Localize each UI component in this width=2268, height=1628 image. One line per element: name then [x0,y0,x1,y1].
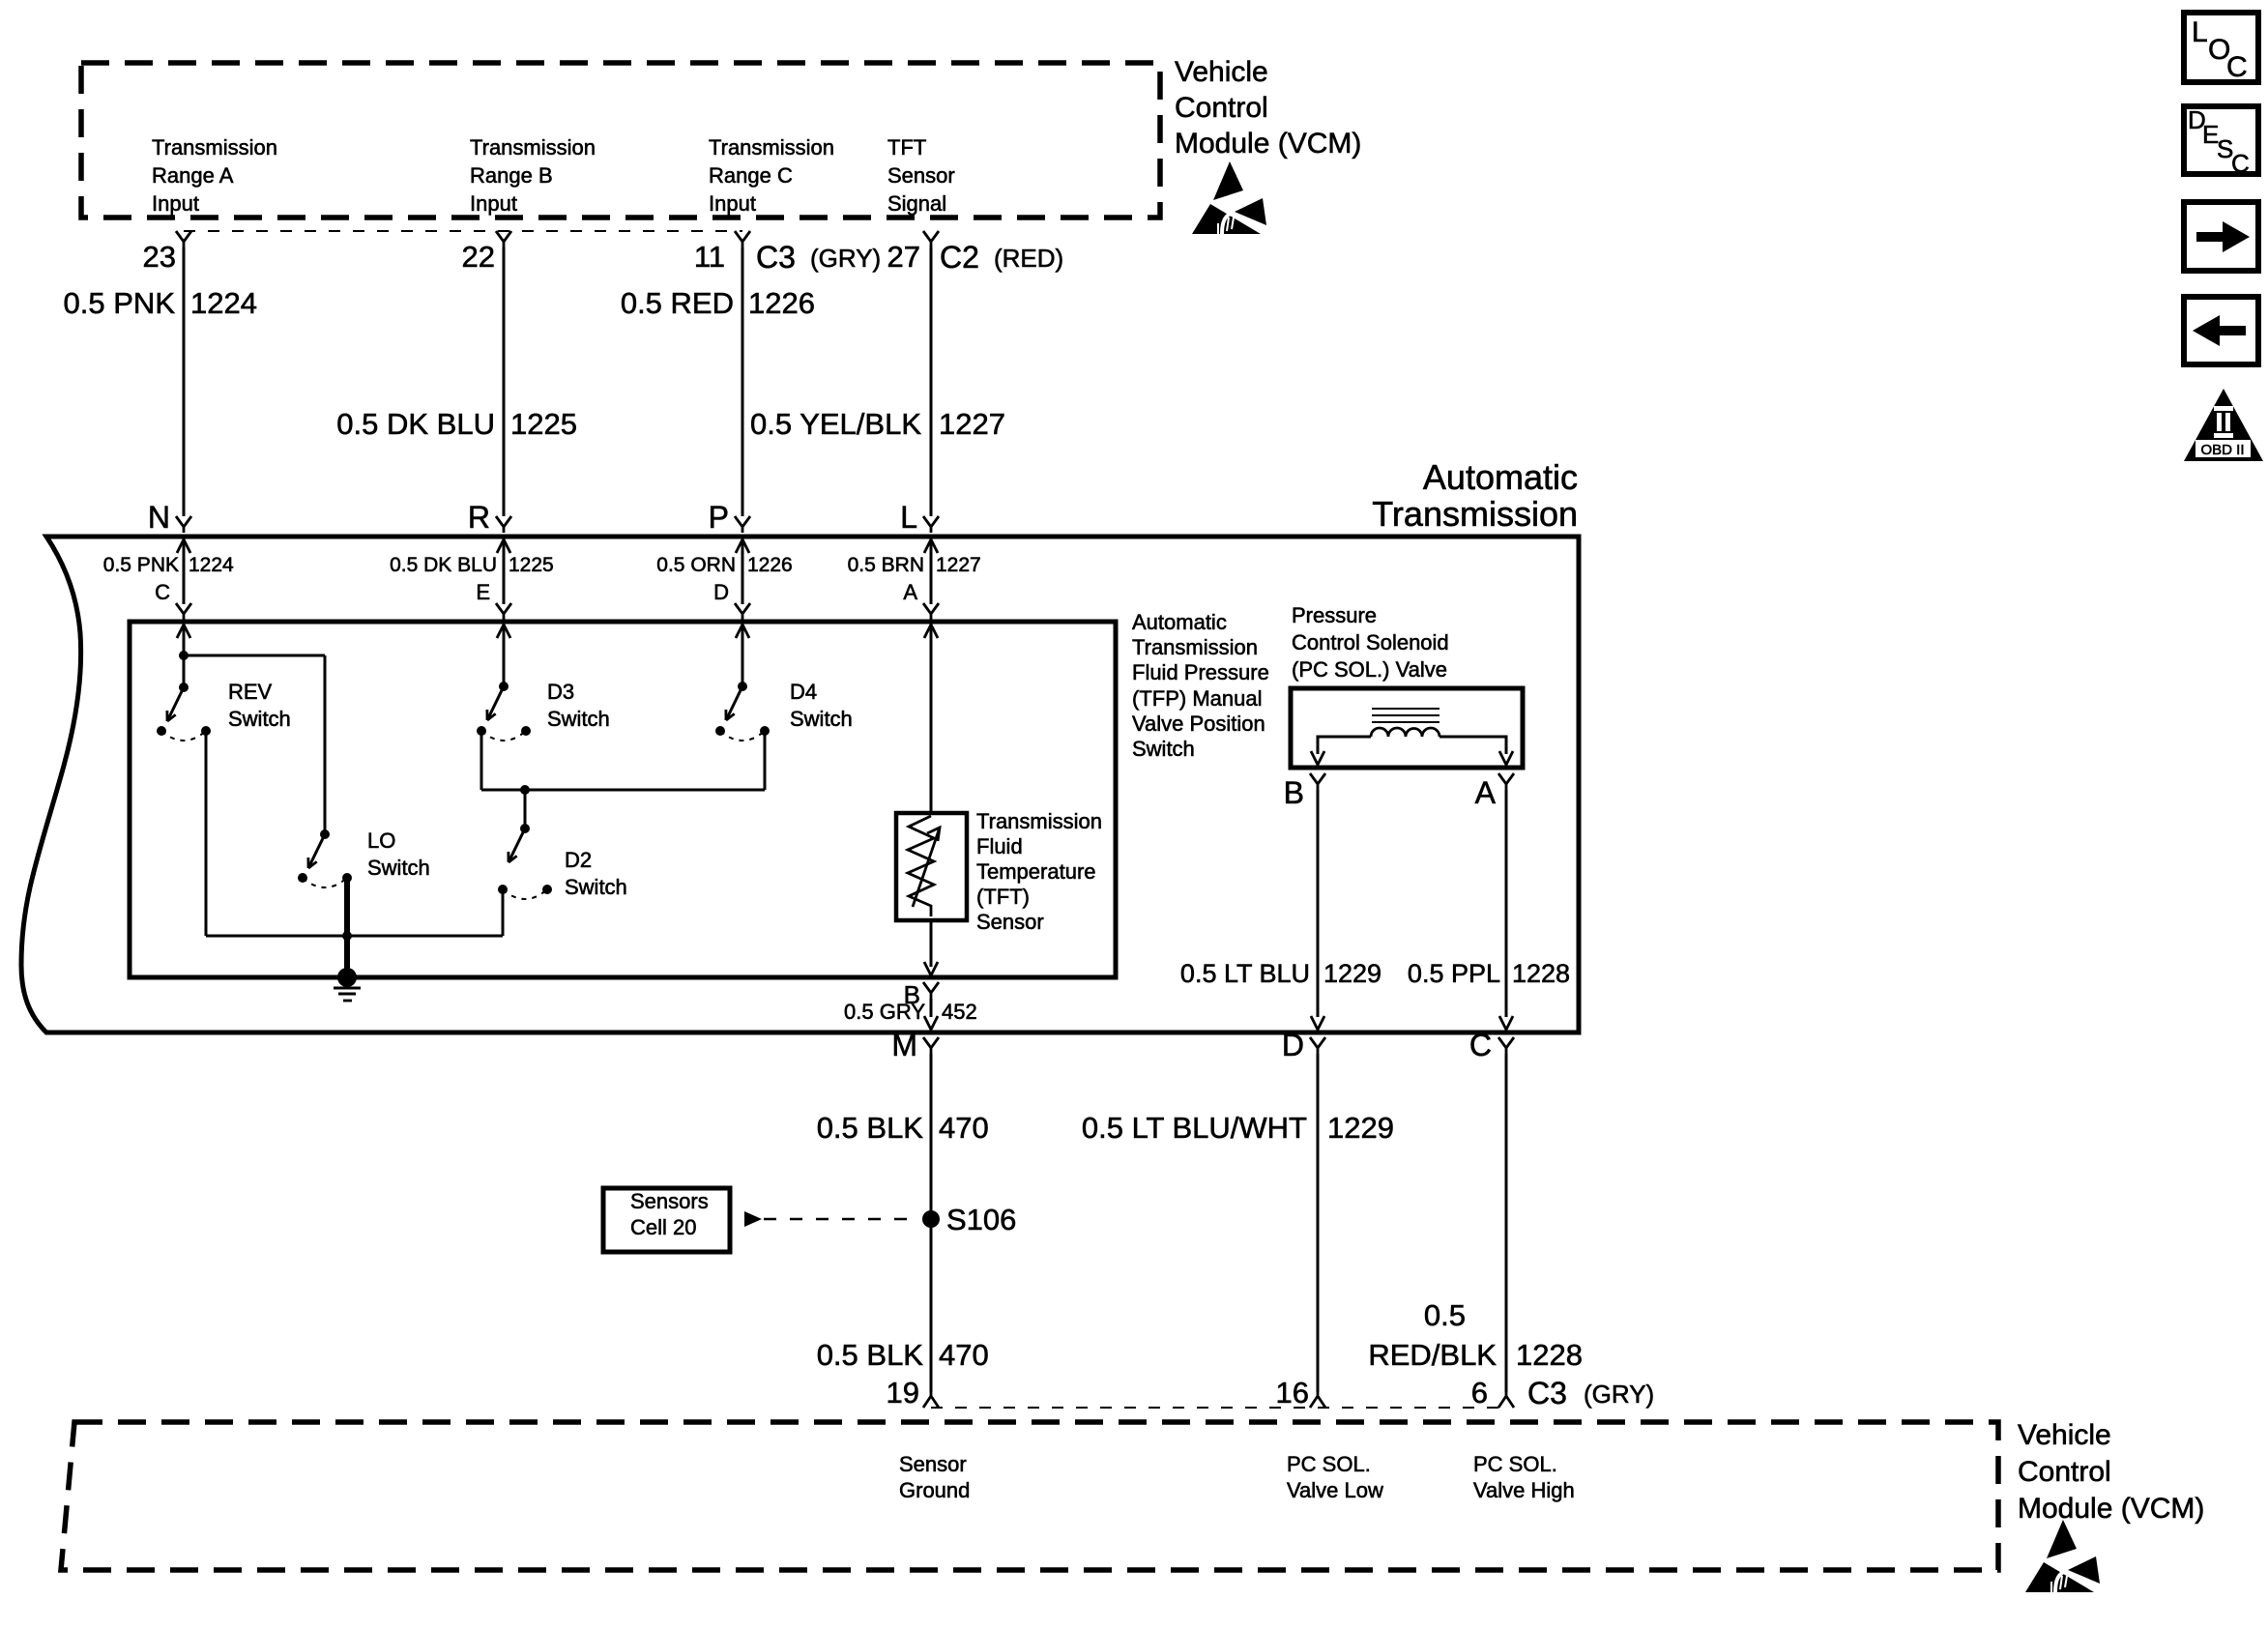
svg-text:Switch: Switch [1132,737,1195,761]
svg-text:OBD II: OBD II [2200,442,2244,458]
svg-text:0.5: 0.5 [1424,1298,1466,1332]
pin B of TFP switch [904,980,939,1009]
svg-text:0.5 LT BLU/WHT: 0.5 LT BLU/WHT [1082,1111,1307,1145]
svg-text:P: P [709,500,729,535]
solenoid pin A [1475,773,1514,810]
node junction D3/D4 to D2 [520,785,530,795]
svg-text:(GRY): (GRY) [810,244,881,273]
node D [1282,1028,1325,1062]
svg-text:Automatic: Automatic [1423,457,1578,497]
svg-text:Control: Control [1175,92,1268,124]
svg-text:1229: 1229 [1327,1111,1394,1145]
svg-text:1225: 1225 [509,554,554,576]
svg-text:0.5 ORN: 0.5 ORN [656,554,736,576]
VCM pin label: Transmission Range B Input [470,135,596,216]
pin 6 connector C3 (GRY) [1471,1376,1654,1410]
svg-text:Switch: Switch [565,875,627,899]
svg-text:D3: D3 [547,680,574,704]
svg-text:C: C [2226,51,2248,83]
svg-text:PC SOL.: PC SOL. [1287,1452,1371,1476]
svg-text:0.5 BRN: 0.5 BRN [848,554,924,576]
Automatic Transmission title [1372,457,1578,534]
svg-text:Sensor: Sensor [976,910,1044,934]
LOC icon [2184,13,2258,83]
VCM pin label: TFT Sensor Signal [887,135,955,216]
TFP Manual Valve Position Switch box [130,622,1116,977]
node C [1469,1028,1514,1062]
svg-text:Input: Input [709,191,756,216]
pin 11 connector C3 (GRY) [694,231,881,275]
svg-text:Ground: Ground [899,1478,970,1502]
svg-text:Input: Input [470,191,517,216]
svg-text:Automatic: Automatic [1132,610,1227,634]
svg-text:1227: 1227 [939,407,1005,441]
pin 22 connector [462,231,511,274]
svg-text:D: D [713,580,729,604]
VCM pin label: PC SOL. Valve High [1473,1452,1575,1502]
REV Switch [157,680,291,741]
pin E [476,580,511,638]
wire 1229 (0.5 LT BLU/WHT) [1317,1054,1320,1392]
connector tie line (dashed) pins 23/22/11 [184,230,742,232]
ESD symbol bottom [2025,1520,2100,1592]
pin C [155,580,191,638]
common switch return wire [206,935,503,938]
wire to D2 switch [524,790,527,829]
svg-text:11: 11 [694,240,725,274]
svg-text:Valve Low: Valve Low [1287,1478,1383,1502]
svg-text:470: 470 [939,1338,989,1372]
svg-text:(TFT): (TFT) [976,885,1030,909]
Automatic Transmission box (torn left edge) [21,537,1579,1032]
ESD symbol top [1192,161,1266,234]
svg-text:Fluid Pressure: Fluid Pressure [1132,660,1269,684]
wire from pin A to TFT sensor [930,625,933,813]
svg-text:1224: 1224 [190,286,257,320]
svg-text:0.5 BLK: 0.5 BLK [817,1338,924,1372]
wire REV switch output [205,731,208,936]
node M [891,1028,939,1062]
svg-text:Switch: Switch [228,707,291,731]
node P [709,500,750,553]
svg-text:Temperature: Temperature [976,859,1096,884]
svg-text:16: 16 [1276,1376,1309,1410]
svg-text:Valve Position: Valve Position [1132,712,1265,736]
pin 19 connector [887,1376,939,1410]
svg-text:0.5 DK BLU: 0.5 DK BLU [390,554,497,576]
svg-text:Signal: Signal [887,191,946,216]
solenoid pin B [1284,773,1325,810]
svg-text:Input: Input [152,191,199,216]
leader to Sensors Cell 20 [744,1211,920,1227]
svg-text:22: 22 [462,240,495,274]
svg-text:D: D [1282,1028,1304,1062]
svg-text:1229: 1229 [1323,959,1381,988]
splice S106 [922,1203,1016,1236]
svg-text:Cell 20: Cell 20 [630,1215,696,1239]
pin D [713,580,750,638]
wire 1225 (0.5 DK BLU) inside transmission [503,539,506,604]
Pressure Control Solenoid (PC SOL.) Valve [1291,688,1523,768]
svg-text:Range C: Range C [709,163,793,188]
svg-text:0.5 PPL: 0.5 PPL [1408,959,1500,988]
svg-text:0.5 BLK: 0.5 BLK [817,1111,924,1145]
svg-text:A: A [1475,775,1497,810]
svg-text:Control Solenoid: Control Solenoid [1292,630,1449,654]
wire 1228 (0.5 PPL) [1505,790,1508,1017]
wire 1227 (0.5 YEL/BLK) VCM pin27 to L [930,247,933,516]
svg-text:D2: D2 [565,848,592,872]
svg-text:0.5 GRY: 0.5 GRY [844,1000,925,1024]
wire 452 (0.5 GRY) [844,1000,977,1024]
svg-text:Switch: Switch [547,707,610,731]
svg-text:0.5 PNK: 0.5 PNK [103,554,179,576]
svg-text:REV: REV [228,680,273,704]
svg-text:M: M [891,1028,917,1062]
back arrow icon [2184,297,2258,364]
svg-text:Valve High: Valve High [1473,1478,1575,1502]
wire 1228 (0.5 RED/BLK) [1505,1054,1508,1392]
svg-text:Switch: Switch [367,856,430,880]
svg-text:Sensor: Sensor [899,1452,967,1476]
svg-text:B: B [1284,775,1304,810]
VCM pin label: PC SOL. Valve Low [1287,1452,1383,1502]
svg-text:Fluid: Fluid [976,834,1023,858]
svg-text:(RED): (RED) [994,244,1063,273]
ground [334,968,361,1001]
svg-text:Pressure: Pressure [1292,603,1377,627]
Sensors Cell 20 box [603,1188,730,1252]
svg-text:S106: S106 [946,1203,1016,1236]
svg-text:L: L [900,500,917,535]
wire 1229 (0.5 LT BLU) [1317,790,1320,1017]
svg-text:0.5 PNK: 0.5 PNK [64,286,176,320]
svg-text:A: A [903,580,917,604]
svg-text:(GRY): (GRY) [1584,1380,1654,1409]
DESC icon [2184,105,2258,178]
wire 470 (0.5 BLK) upper [930,1054,933,1392]
OBD II icon [2184,389,2263,461]
svg-text:1225: 1225 [510,407,577,441]
connector tie line (dashed) pins 19/16/6 [931,1407,1506,1409]
svg-text:23: 23 [143,240,176,274]
svg-text:Range B: Range B [470,163,553,188]
svg-text:C: C [1469,1028,1492,1062]
svg-text:N: N [148,500,170,535]
svg-text:C2: C2 [940,240,979,275]
svg-text:0.5 LT BLU: 0.5 LT BLU [1180,959,1310,988]
wire from pin E to D3 switch [503,625,506,686]
svg-text:Transmission: Transmission [976,809,1102,833]
D2 Switch [498,824,627,899]
Pressure Control Solenoid label [1292,603,1449,682]
svg-text:1228: 1228 [1512,959,1570,988]
pin 23 connector [143,231,191,274]
wire branch to LO switch [184,654,325,657]
wire 1226 (0.5 ORN) inside transmission [741,539,744,604]
node L [900,500,939,553]
svg-text:LO: LO [367,829,395,853]
svg-text:Module (VCM): Module (VCM) [1175,128,1361,160]
wire D2 switch output [502,889,505,936]
pin A [903,580,939,638]
svg-text:Vehicle: Vehicle [1175,56,1268,88]
svg-text:RED/BLK: RED/BLK [1368,1338,1497,1372]
svg-text:19: 19 [887,1376,919,1410]
Vehicle Control Module (VCM) title bottom [2018,1419,2204,1525]
wire D3 switch output [480,731,483,790]
svg-text:Range A: Range A [152,163,234,188]
svg-text:Transmission: Transmission [152,135,277,160]
svg-text:452: 452 [942,1000,977,1024]
forward arrow icon [2184,202,2258,271]
svg-text:C: C [155,580,170,604]
wire TFT sensor output [930,920,933,967]
svg-text:6: 6 [1471,1376,1488,1410]
svg-text:Transmission: Transmission [1132,635,1258,659]
svg-text:1224: 1224 [189,554,234,576]
svg-text:Sensors: Sensors [630,1189,709,1213]
wire 1224 (0.5 PNK) VCM pin23 to N [183,247,186,516]
svg-text:0.5 RED: 0.5 RED [621,286,734,320]
svg-text:Transmission: Transmission [709,135,834,160]
D4 Switch [715,680,853,741]
svg-text:27: 27 [887,240,920,274]
svg-text:(PC SOL.) Valve: (PC SOL.) Valve [1292,657,1447,682]
Transmission Fluid Temperature (TFT) Sensor [896,809,1102,934]
svg-text:C3: C3 [756,240,796,275]
svg-text:1228: 1228 [1516,1338,1583,1372]
svg-text:C3: C3 [1527,1376,1567,1410]
VCM pin label: Transmission Range A Input [152,135,277,216]
svg-text:D4: D4 [790,680,817,704]
wire LO switch output (to ground) [344,878,350,977]
VCM pin label: Transmission Range C Input [709,135,834,216]
svg-text:E: E [476,580,490,604]
svg-text:470: 470 [939,1111,989,1145]
node N [148,500,191,553]
VCM pin label: Sensor Ground [899,1452,970,1502]
wire from pin C to REV switch [183,625,186,687]
pin 27 connector C2 (RED) [887,231,1064,275]
TFP Manual Valve Position Switch label [1132,610,1269,761]
wire 1224 (0.5 PNK) inside transmission [183,539,186,604]
svg-text:L: L [2192,16,2208,48]
pin 16 connector [1276,1376,1325,1410]
node R [468,500,511,553]
wire from pin D to D4 switch [741,625,744,686]
svg-text:0.5 DK BLU: 0.5 DK BLU [336,407,495,441]
svg-text:1226: 1226 [748,286,815,320]
wire 470 (0.5 BLK) lower [817,1338,989,1372]
svg-text:C: C [2231,149,2250,178]
LO Switch [298,829,430,887]
wire 1227 (0.5 BRN) inside transmission [930,539,933,604]
D3 Switch [477,680,610,741]
wire D4 switch output [764,731,767,790]
Vehicle Control Module (VCM) title top [1175,56,1361,160]
wire 1226 (0.5 RED) VCM pin11 to P [741,247,744,516]
Vehicle Control Module (VCM) bottom box [61,1422,1998,1570]
svg-text:1227: 1227 [936,554,981,576]
svg-text:Switch: Switch [790,707,853,731]
svg-text:1226: 1226 [747,554,793,576]
svg-text:PC SOL.: PC SOL. [1473,1452,1557,1476]
svg-text:(TFP) Manual: (TFP) Manual [1132,686,1262,711]
wire 1225 (0.5 DK BLU) VCM pin22 to R [503,247,506,516]
svg-text:Sensor: Sensor [887,163,955,188]
svg-text:Vehicle: Vehicle [2018,1419,2111,1451]
svg-text:Transmission: Transmission [1372,494,1578,534]
Vehicle Control Module (VCM) top box [81,63,1160,218]
svg-text:Transmission: Transmission [470,135,596,160]
svg-text:TFT: TFT [887,135,926,160]
node junction to LO switch branch [179,651,189,660]
svg-text:Control: Control [2018,1456,2111,1488]
svg-text:Module (VCM): Module (VCM) [2018,1493,2204,1525]
svg-text:0.5 YEL/BLK: 0.5 YEL/BLK [750,407,921,441]
svg-text:R: R [468,500,490,535]
node junction at ground stem [342,931,352,941]
